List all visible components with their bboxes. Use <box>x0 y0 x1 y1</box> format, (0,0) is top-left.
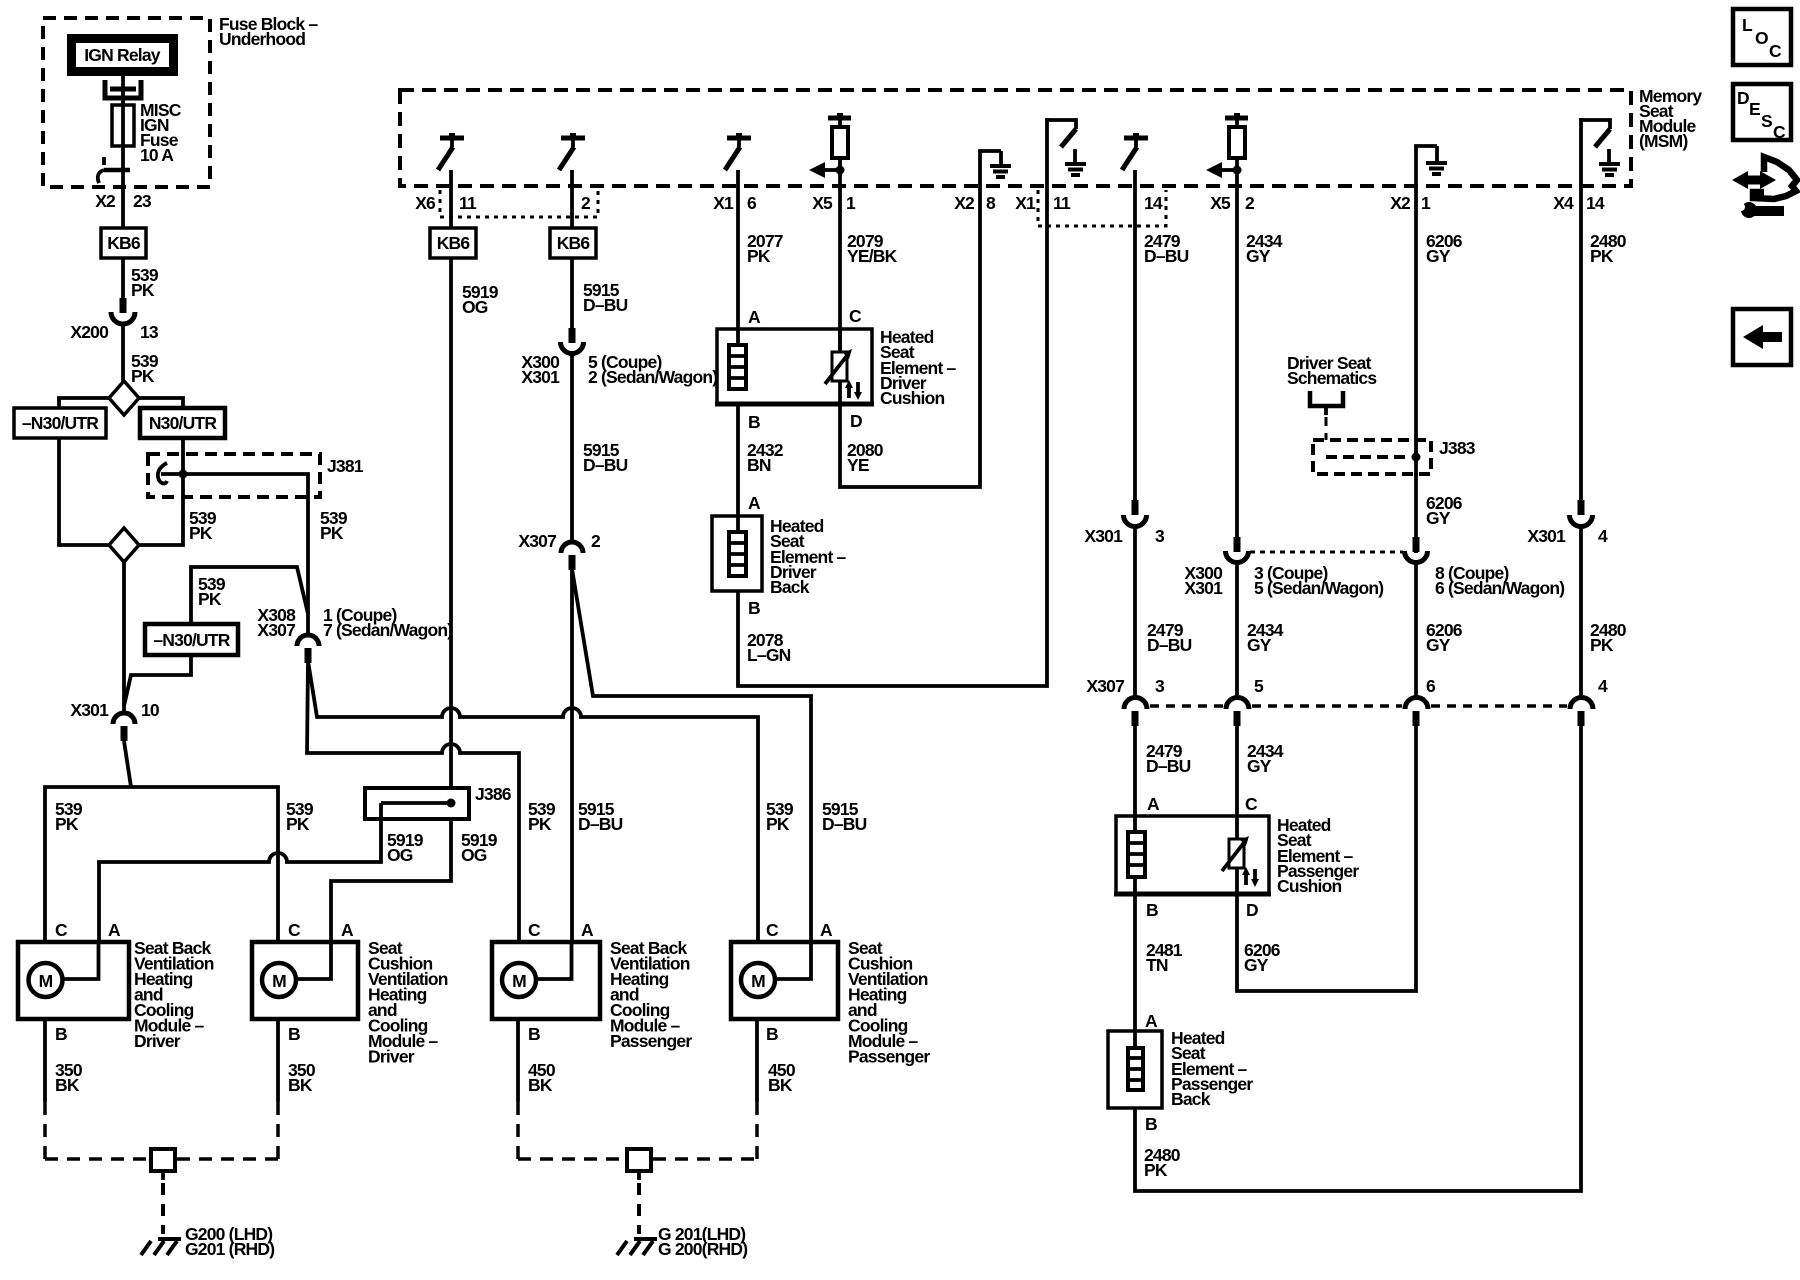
svg-text:X301: X301 <box>1184 578 1223 598</box>
svg-text:B: B <box>288 1024 300 1044</box>
wire diamond to N30/UTR <box>139 398 183 408</box>
wire X301:10 to Y-bus <box>124 741 131 787</box>
svg-text:J386: J386 <box>475 784 512 804</box>
svg-text:X4: X4 <box>1553 193 1574 213</box>
svg-text:C: C <box>1245 794 1258 814</box>
wire relay to fuse <box>121 74 125 228</box>
splice J386 box <box>365 784 512 819</box>
label Heated Seat Element - Driver Cushion <box>880 327 957 408</box>
svg-text:M: M <box>512 971 526 991</box>
svg-text:4: 4 <box>1598 676 1608 696</box>
wire 5919 OG branch to module1 A with hop over x278 <box>99 819 381 942</box>
wire 539 PK J381 branch to X308/X307 <box>161 474 348 637</box>
wire -N30/UTR second bottom branch to X301:10 <box>124 655 191 706</box>
label Heated Seat Element - Passenger Cushion <box>1277 815 1359 896</box>
svg-text:Passenger: Passenger <box>848 1047 930 1067</box>
svg-text:Back: Back <box>1171 1089 1211 1109</box>
wire 6206 GY X300/X301 to X307:6 <box>1416 563 1463 700</box>
svg-text:L–GN: L–GN <box>747 645 791 665</box>
svg-text:C: C <box>1769 41 1782 61</box>
icon harness double arrow with wrench <box>1732 157 1797 218</box>
connector KB6 (left) <box>101 228 146 258</box>
icon LOC box <box>1733 9 1791 65</box>
svg-text:7 (Sedan/Wagon): 7 (Sedan/Wagon) <box>323 620 452 640</box>
label 5919 OG right <box>461 830 498 865</box>
svg-text:(MSM): (MSM) <box>1639 131 1687 151</box>
svg-text:14: 14 <box>1586 193 1605 213</box>
svg-text:C: C <box>849 306 862 326</box>
ground G201/G200 passenger side <box>617 1224 747 1259</box>
dashed line X307 row <box>1150 704 1567 708</box>
svg-text:1: 1 <box>846 193 856 213</box>
connector X308/X307 pin 1/7 <box>257 605 452 663</box>
svg-text:PK: PK <box>286 814 310 834</box>
svg-text:IGN Relay: IGN Relay <box>84 45 161 65</box>
connector X301 pin 3 <box>1084 500 1165 546</box>
svg-text:3: 3 <box>1155 526 1165 546</box>
svg-text:OG: OG <box>387 845 413 865</box>
svg-text:J381: J381 <box>327 456 364 476</box>
wire 2479 D-BU X307:3 to passenger cushion A <box>1135 725 1191 832</box>
svg-text:2: 2 <box>591 531 601 551</box>
wire N30/UTR down through J381 to lower diamond <box>139 438 183 545</box>
svg-text:Driver: Driver <box>134 1031 181 1051</box>
svg-text:D–BU: D–BU <box>1147 635 1192 655</box>
label module 4 <box>848 938 930 1067</box>
dotted connector box X6 pins <box>440 190 598 217</box>
label Driver Seat Schematics with bracket <box>1287 353 1377 440</box>
svg-text:B: B <box>748 598 760 618</box>
svg-text:14: 14 <box>1144 193 1163 213</box>
wire 350 BK module 2 B <box>278 1019 316 1102</box>
svg-text:C: C <box>288 920 301 940</box>
svg-text:2: 2 <box>581 193 591 213</box>
svg-text:6: 6 <box>1426 676 1436 696</box>
svg-text:5 (Sedan/Wagon): 5 (Sedan/Wagon) <box>1254 578 1383 598</box>
wire 5915 D-BU X307:2 to module3 A <box>570 569 574 942</box>
wire 5919 OG KB6 down to J386 <box>451 186 499 788</box>
motor M module 1 <box>29 942 99 997</box>
svg-text:D–BU: D–BU <box>583 295 628 315</box>
svg-text:PK: PK <box>198 589 222 609</box>
motor M module 3 <box>502 942 572 997</box>
svg-text:D: D <box>850 411 862 431</box>
svg-text:1: 1 <box>1421 193 1431 213</box>
svg-text:A: A <box>1147 794 1160 814</box>
svg-text:KB6: KB6 <box>557 233 591 253</box>
connector X301 pin 10 <box>70 700 160 741</box>
wire 539 PK KB6 to X200 <box>123 258 159 300</box>
svg-text:X200: X200 <box>70 322 109 342</box>
sense resistor with arrow inside MSM at X5:2 <box>1206 113 1248 186</box>
svg-text:Cushion: Cushion <box>1277 876 1342 896</box>
node -N30/UTR (second) <box>145 574 238 655</box>
wire 2479 D-BU X301:3 to X307:3 <box>1135 527 1192 700</box>
svg-text:10: 10 <box>141 700 160 720</box>
label Heated Seat Element - Driver Back <box>770 516 847 597</box>
svg-text:C: C <box>1773 122 1786 142</box>
junction dot J383 <box>1412 453 1421 462</box>
switch to ground inside MSM at X1:11 <box>1047 118 1086 186</box>
svg-text:GY: GY <box>1426 508 1451 528</box>
heated seat element passenger cushion box <box>1114 794 1271 920</box>
motor M module 4 <box>741 942 811 997</box>
switch inside MSM at X1:6 <box>725 133 751 186</box>
svg-text:–N30/UTR: –N30/UTR <box>22 413 99 433</box>
thermistor symbol passenger cushion <box>1222 836 1259 896</box>
svg-text:GY: GY <box>1247 635 1272 655</box>
svg-text:X307: X307 <box>257 620 295 640</box>
switch inside MSM at X6:11 <box>438 133 464 186</box>
wire 2480 PK X301:4 to X307:4 <box>1581 527 1627 700</box>
svg-text:GY: GY <box>1426 246 1451 266</box>
svg-text:PK: PK <box>1590 635 1614 655</box>
svg-text:X6: X6 <box>415 193 436 213</box>
ground node square driver side <box>151 1149 175 1234</box>
svg-text:B: B <box>1145 1114 1157 1134</box>
connector X200 pin 13 <box>70 298 159 342</box>
svg-text:YE: YE <box>847 455 869 475</box>
svg-text:X1: X1 <box>713 193 734 213</box>
wire 2079 YE/BK X5:1 to driver cushion element C <box>840 186 898 352</box>
svg-text:X301: X301 <box>521 367 560 387</box>
wire 450 BK module 4 B <box>757 1019 796 1102</box>
label module 1 <box>134 938 214 1051</box>
svg-text:23: 23 <box>133 191 152 211</box>
wire 5915 D-BU KB6 to X300/X301 <box>572 186 628 330</box>
label 6206 GY below passenger cushion D <box>1244 940 1281 975</box>
svg-text:A: A <box>108 920 121 940</box>
connector X300/X301 pin 5/2 <box>521 328 717 387</box>
svg-text:2 (Sedan/Wagon): 2 (Sedan/Wagon) <box>588 367 717 387</box>
label 2480 PK bottom <box>1144 1145 1181 1180</box>
wire 450 BK module 3 B <box>518 1019 556 1102</box>
label 5915 D-BU module4 A <box>822 799 867 834</box>
label 539 PK module1 C <box>55 799 83 834</box>
fuse block underhood dashed enclosure <box>43 18 210 187</box>
svg-text:Passenger: Passenger <box>610 1031 692 1051</box>
connector X307 pin 3 <box>1124 698 1147 727</box>
svg-text:PK: PK <box>131 366 155 386</box>
svg-text:YE/BK: YE/BK <box>847 246 898 266</box>
dashed ground bus passenger side <box>518 1102 757 1159</box>
relay IGN Relay <box>67 34 178 76</box>
svg-text:GY: GY <box>1244 955 1269 975</box>
ground G200/G201 driver side <box>141 1224 274 1259</box>
svg-text:X307: X307 <box>1086 676 1124 696</box>
svg-text:L: L <box>1742 15 1753 35</box>
icon DESC box <box>1733 84 1791 142</box>
node -N30/UTR (left) <box>14 408 106 438</box>
svg-text:5: 5 <box>1254 676 1264 696</box>
label Memory Seat Module (MSM) <box>1639 86 1702 151</box>
label 5915 D-BU module3 A <box>578 799 623 834</box>
svg-text:PK: PK <box>528 814 552 834</box>
svg-text:8: 8 <box>986 193 996 213</box>
svg-text:A: A <box>748 493 761 513</box>
svg-text:D: D <box>1246 900 1258 920</box>
label Fuse Block - Underhood <box>219 14 318 49</box>
connector X307 row labels <box>1086 676 1608 696</box>
svg-text:Driver: Driver <box>368 1047 415 1067</box>
svg-text:D–BU: D–BU <box>1144 246 1189 266</box>
svg-text:B: B <box>1146 900 1158 920</box>
heater element symbol driver cushion <box>729 345 746 389</box>
wire diamond to X301:10 <box>122 562 126 713</box>
connector X300/X301 pin 3/5 <box>1184 537 1383 598</box>
svg-text:A: A <box>748 307 761 327</box>
svg-text:D–BU: D–BU <box>578 814 623 834</box>
fuse MISC IGN Fuse 10 A <box>112 105 134 146</box>
MSM pin labels row <box>415 193 1605 213</box>
svg-text:BK: BK <box>768 1075 793 1095</box>
svg-text:PK: PK <box>766 814 790 834</box>
heated seat element passenger back box <box>1108 1031 1162 1134</box>
wire 2432 BN driver cushion B to driver back A <box>738 404 784 532</box>
svg-text:PK: PK <box>189 523 213 543</box>
wire 6206 GY X307:6 down to passenger cushion D loop <box>1237 725 1416 991</box>
splice J383 dashed box <box>1313 438 1476 474</box>
junction dot J381 <box>158 463 188 484</box>
svg-text:TN: TN <box>1146 955 1168 975</box>
ground node square passenger side <box>627 1149 651 1234</box>
wire 5919 OG branch to module2 A <box>331 819 451 942</box>
heater element symbol passenger back <box>1128 1048 1143 1090</box>
svg-text:GY: GY <box>1426 635 1451 655</box>
heated seat element driver back box <box>712 516 762 618</box>
wire -N30/UTR down to lower diamond <box>59 438 109 545</box>
label MISC IGN Fuse 10 A <box>140 100 182 165</box>
connector X307 pin 4 <box>1570 698 1593 727</box>
svg-text:E: E <box>1749 99 1760 119</box>
svg-text:X5: X5 <box>1210 193 1231 213</box>
svg-text:PK: PK <box>131 280 155 300</box>
label module 3 <box>610 938 692 1051</box>
module 2 seat cushion ventilation driver box <box>252 920 358 1044</box>
wire 2481 TN passenger cushion B to passenger back A <box>1135 896 1183 1048</box>
label 5919 OG left <box>387 830 424 865</box>
wire 539 PK X200 to splice diamond <box>123 324 159 386</box>
wire diamond to -N30/UTR <box>59 398 109 408</box>
svg-text:BK: BK <box>288 1075 313 1095</box>
svg-text:PK: PK <box>320 523 344 543</box>
svg-text:M: M <box>751 971 765 991</box>
svg-text:Schematics: Schematics <box>1287 368 1377 388</box>
svg-text:C: C <box>528 920 541 940</box>
wire 2080 YE driver cushion D up to X2:8 <box>840 186 980 487</box>
svg-text:C: C <box>55 920 68 940</box>
heater element symbol driver back <box>729 532 746 576</box>
svg-text:B: B <box>55 1024 67 1044</box>
label 539 PK module3 C <box>528 799 556 834</box>
svg-text:X2: X2 <box>95 191 116 211</box>
sense resistor with arrow inside MSM at X5:1 <box>809 113 851 186</box>
svg-text:A: A <box>341 920 354 940</box>
module 1 seat back ventilation driver box <box>18 920 129 1044</box>
connector KB6 (5919 OG) <box>430 228 476 258</box>
svg-text:KB6: KB6 <box>107 233 141 253</box>
wire 539 PK X308/X307 to module3 C with hop <box>307 661 519 942</box>
label 539 PK above lower diamond <box>189 508 217 543</box>
switch wire 2077 PK X1:6 to driver cushion element A <box>738 186 783 345</box>
svg-text:X2: X2 <box>954 193 975 213</box>
label module 2 <box>368 938 448 1067</box>
splice diamond upper <box>109 381 139 415</box>
switch inside MSM at pin 14 <box>1122 133 1148 186</box>
svg-text:6 (Sedan/Wagon): 6 (Sedan/Wagon) <box>1435 578 1564 598</box>
svg-text:3: 3 <box>1155 676 1165 696</box>
label Heated Seat Element - Passenger Back <box>1171 1028 1253 1109</box>
ground wire inside MSM from X2:1 <box>1416 146 1447 186</box>
svg-text:X5: X5 <box>812 193 833 213</box>
pin labels X2 23 <box>95 191 152 211</box>
svg-text:BK: BK <box>55 1075 80 1095</box>
svg-text:J383: J383 <box>1439 438 1476 458</box>
svg-text:D–BU: D–BU <box>583 455 628 475</box>
svg-text:GY: GY <box>1247 756 1272 776</box>
svg-text:B: B <box>766 1024 778 1044</box>
svg-text:X301: X301 <box>1527 526 1566 546</box>
memory seat module dashed enclosure <box>400 90 1631 186</box>
svg-text:M: M <box>272 971 286 991</box>
wire -N30/UTR second top branch to 539 PK vertical <box>191 567 308 624</box>
svg-text:Cushion: Cushion <box>880 388 945 408</box>
svg-text:M: M <box>39 971 53 991</box>
svg-text:Back: Back <box>770 577 810 597</box>
heated seat element driver cushion box <box>715 306 874 432</box>
wire 5915 D-BU branch to module4 A <box>572 569 811 942</box>
svg-text:B: B <box>748 412 760 432</box>
svg-text:6: 6 <box>747 193 757 213</box>
switch to ground inside MSM at X4:14 <box>1581 118 1620 186</box>
svg-text:BK: BK <box>528 1075 553 1095</box>
circuit breaker hook <box>98 157 130 183</box>
svg-text:A: A <box>1145 1011 1158 1031</box>
svg-text:PK: PK <box>55 814 79 834</box>
label 539 PK module4 C <box>766 799 794 834</box>
svg-text:G201 (RHD): G201 (RHD) <box>185 1239 274 1259</box>
wire 539 PK Y-bus to modules 1 and 2 C pins <box>45 787 278 942</box>
label 539 PK module2 C <box>286 799 314 834</box>
svg-text:2: 2 <box>1245 193 1255 213</box>
module 4 seat cushion ventilation passenger box <box>731 920 838 1044</box>
svg-text:D–BU: D–BU <box>1146 756 1191 776</box>
svg-text:X307: X307 <box>518 531 556 551</box>
motor M module 2 <box>262 942 331 997</box>
module 3 seat back ventilation passenger box <box>492 920 600 1044</box>
svg-text:B: B <box>528 1024 540 1044</box>
wire 2480 PK X4:14 to X301:4 <box>1581 186 1627 502</box>
svg-text:11: 11 <box>1053 193 1071 213</box>
svg-text:S: S <box>1761 111 1772 131</box>
svg-text:BN: BN <box>747 455 771 475</box>
svg-text:X2: X2 <box>1390 193 1411 213</box>
connector X307 pin 2 <box>518 531 601 570</box>
wire 2078 L-GN driver back B up to X1:11 <box>738 186 1047 686</box>
svg-text:O: O <box>1755 28 1768 48</box>
wire 2479 D-BU pin 14 to X301:3 <box>1135 186 1189 502</box>
thermistor symbol driver cushion <box>825 329 862 404</box>
svg-text:G 200(RHD): G 200(RHD) <box>658 1239 747 1259</box>
connector X307 pin 6 <box>1405 698 1428 727</box>
svg-text:10 A: 10 A <box>140 145 174 165</box>
wire 2434 GY X300/X301 to X307:5 <box>1237 563 1284 700</box>
relay contact symbol <box>105 80 141 98</box>
icon back arrow box <box>1733 309 1791 365</box>
node N30/UTR <box>140 408 225 438</box>
svg-text:11: 11 <box>459 193 477 213</box>
connector X301 pin 4 <box>1527 500 1608 546</box>
svg-text:OG: OG <box>462 297 488 317</box>
svg-text:PK: PK <box>1144 1160 1168 1180</box>
svg-text:X301: X301 <box>70 700 109 720</box>
dotted connector box X1 pins <box>1038 190 1166 226</box>
svg-text:–N30/UTR: –N30/UTR <box>153 630 230 650</box>
svg-text:PK: PK <box>1590 246 1614 266</box>
wire 350 BK module 1 B <box>45 1019 83 1102</box>
splice J381 dashed box <box>148 454 364 497</box>
connector X300/X301 pin 8/6 <box>1405 537 1565 598</box>
svg-text:GY: GY <box>1246 246 1271 266</box>
svg-text:X301: X301 <box>1084 526 1123 546</box>
wire 6206 GY X2:1 down through J383 <box>1416 186 1463 553</box>
svg-text:D: D <box>1737 88 1749 108</box>
svg-text:13: 13 <box>140 322 159 342</box>
wire 5915 D-BU X300/X301 to X307:2 <box>572 354 628 542</box>
splice diamond lower <box>109 528 139 562</box>
heater element symbol passenger cushion <box>1128 832 1145 896</box>
svg-text:A: A <box>581 920 594 940</box>
ground wire inside MSM from X2:8 <box>980 151 1011 186</box>
svg-text:OG: OG <box>461 845 487 865</box>
svg-text:N30/UTR: N30/UTR <box>149 413 217 433</box>
svg-text:KB6: KB6 <box>437 233 471 253</box>
dashed ground bus driver side <box>45 1102 278 1159</box>
wire 2434 GY X5:2 to X300/X301 <box>1237 186 1283 539</box>
svg-text:4: 4 <box>1598 526 1608 546</box>
connector KB6 (5915 D-BU) <box>550 228 596 258</box>
connector X307 pin 5 <box>1226 698 1249 727</box>
svg-text:PK: PK <box>747 246 771 266</box>
svg-text:X1: X1 <box>1015 193 1036 213</box>
wire 539 PK X308/X307 to module4 C with hops <box>308 661 758 942</box>
wire 2434 GY X307:5 to passenger cushion C <box>1237 725 1284 839</box>
svg-text:D–BU: D–BU <box>822 814 867 834</box>
switch inside MSM at pin 2 <box>559 133 585 186</box>
svg-text:C: C <box>766 920 779 940</box>
wire 2480 PK X307:4 down to passenger back B loop <box>1135 725 1581 1191</box>
svg-text:Underhood: Underhood <box>219 29 305 49</box>
dotted line X300/X301 row <box>1250 551 1403 554</box>
svg-text:A: A <box>820 920 833 940</box>
